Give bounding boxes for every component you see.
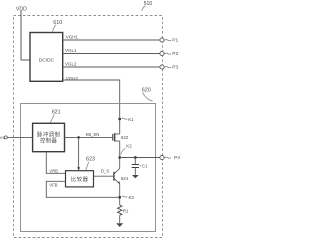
comparator U623 bbox=[66, 171, 94, 187]
terminal P1 bbox=[160, 38, 179, 44]
svg-text:620: 620 bbox=[142, 87, 151, 93]
transistor Q622 (MOSFET) bbox=[113, 133, 129, 141]
label 620 bbox=[142, 87, 153, 101]
ground under C1 bbox=[132, 175, 139, 178]
pulse modulation controller U621 bbox=[33, 123, 65, 151]
svg-text:K1: K1 bbox=[128, 117, 134, 122]
wire 624 emitter to K3 bbox=[119, 184, 121, 206]
svg-text:C1: C1 bbox=[142, 163, 148, 168]
wire KB_EN to comparator enable bbox=[78, 137, 80, 168]
junction dot KB_EN branch bbox=[77, 136, 80, 139]
wire VDD to DC/DC bbox=[21, 11, 30, 60]
svg-text:VGL2: VGL2 bbox=[65, 62, 77, 67]
terminal P3 bbox=[160, 65, 179, 71]
svg-text:DC/DC: DC/DC bbox=[39, 58, 55, 64]
svg-text:624: 624 bbox=[121, 176, 129, 181]
capacitor C1 bbox=[132, 158, 148, 175]
svg-text:P2: P2 bbox=[172, 51, 178, 57]
label 510 bbox=[142, 1, 153, 11]
svg-text:比较器: 比较器 bbox=[71, 175, 89, 183]
wire VRB from 621 to comparator bbox=[46, 152, 65, 174]
wire VGH1 bbox=[63, 39, 161, 41]
node K3 bbox=[118, 195, 134, 200]
junction dot K2/P4 bbox=[118, 156, 121, 159]
wire VFB feedback from K3 to comparator bbox=[46, 181, 119, 197]
junction dot C1 tap bbox=[134, 156, 137, 159]
label 610 bbox=[53, 20, 63, 32]
DC/DC converter U610 bbox=[30, 33, 63, 82]
svg-text:VGL1: VGL1 bbox=[65, 48, 77, 53]
label 621 bbox=[50, 110, 60, 123]
terminal KB bbox=[0, 136, 7, 140]
wire VGH2 bbox=[63, 80, 120, 134]
transistor Q624 (BJT) bbox=[114, 168, 129, 184]
box 620 discharge circuit bbox=[21, 104, 156, 232]
resistor R1 bbox=[118, 205, 130, 215]
svg-text:R1: R1 bbox=[123, 208, 129, 213]
svg-text:P3: P3 bbox=[172, 65, 178, 71]
wire KB input bbox=[7, 136, 32, 138]
wire KB_EN bbox=[65, 136, 113, 138]
dashed border box 510 bbox=[14, 16, 163, 238]
svg-text:VGH1: VGH1 bbox=[66, 35, 79, 40]
svg-text:K3: K3 bbox=[129, 195, 135, 200]
wire K2 to P4 bbox=[120, 157, 161, 159]
svg-text:VFB: VFB bbox=[49, 183, 57, 188]
wire 622 source down to K2 bbox=[119, 141, 121, 169]
terminal P4 bbox=[160, 155, 180, 161]
svg-text:610: 610 bbox=[53, 20, 62, 26]
svg-text:KB_EN: KB_EN bbox=[86, 132, 100, 137]
svg-text:K2: K2 bbox=[126, 144, 132, 149]
label 623 bbox=[86, 156, 95, 170]
node K1 bbox=[118, 117, 134, 122]
wire R1 to ground bbox=[119, 215, 121, 223]
svg-text:VRB: VRB bbox=[49, 168, 58, 173]
wire D_S comparator output to 624 base bbox=[94, 175, 114, 177]
svg-text:P1: P1 bbox=[172, 38, 178, 44]
svg-text:控制器: 控制器 bbox=[40, 137, 57, 145]
svg-text:VGH2: VGH2 bbox=[66, 76, 79, 81]
node K2 bbox=[121, 144, 133, 155]
wire VGL2 bbox=[63, 66, 161, 68]
svg-text:623: 623 bbox=[86, 156, 95, 162]
svg-text:D_S: D_S bbox=[101, 168, 109, 173]
svg-text:P4: P4 bbox=[174, 155, 180, 161]
svg-text:621: 621 bbox=[52, 110, 61, 116]
ground under R1 bbox=[116, 223, 123, 227]
wire VGL1 bbox=[63, 53, 161, 55]
svg-text:622: 622 bbox=[121, 135, 129, 140]
svg-text:VDD: VDD bbox=[16, 6, 27, 12]
svg-text:脉冲调制: 脉冲调制 bbox=[37, 131, 60, 139]
terminal P2 bbox=[160, 51, 179, 57]
